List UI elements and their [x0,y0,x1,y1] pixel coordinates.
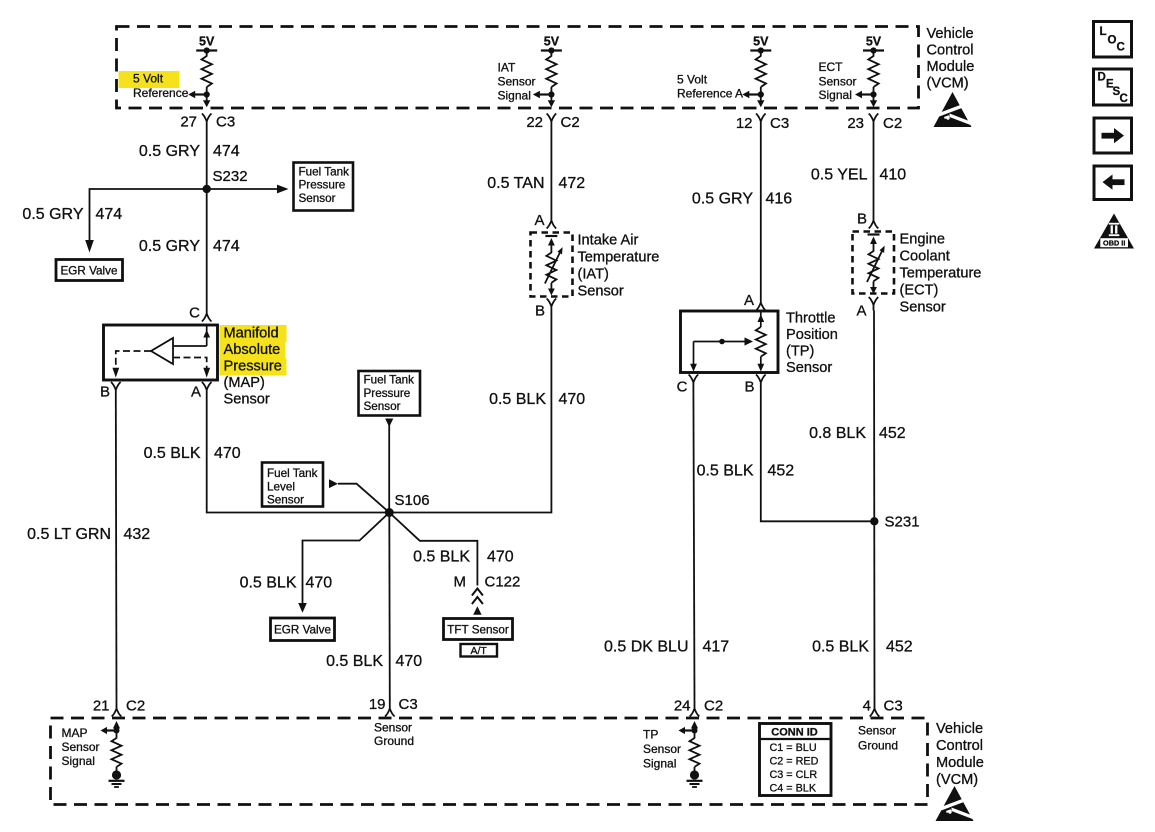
svg-text:C3: C3 [884,698,903,715]
connector pin B of ECT sensor [857,211,878,229]
wire: 0.5 YEL 410 from pin 23 C2 to ECT sensor pin B [873,127,875,215]
label: 0.5 GRY 474 (upper) [139,143,240,160]
connector pin 27 C3 of VCM [180,114,235,131]
svg-text:L: L [1100,26,1107,38]
svg-text:0.5 BLK: 0.5 BLK [144,445,201,462]
label: 0.8 BLK 452 [809,425,906,442]
wire: 0.5 GRY 474 from pin 27 C3 down to S232 and MAP pin C [206,127,208,308]
label: 5 Volt Reference (highlighted) [119,71,180,88]
wire: 0.5 LT GRN 432 from MAP pin B to pin 21 C2 [115,396,118,704]
svg-text:S106: S106 [395,492,430,509]
svg-text:5V: 5V [199,35,215,49]
svg-text:Signal: Signal [819,88,852,102]
svg-text:0.5 BLK: 0.5 BLK [812,639,869,656]
label: Vehicle Control Module (VCM) top right [927,26,975,92]
svg-text:Ground: Ground [374,734,414,748]
component: Manifold Absolute Pressure (MAP) Sensor box with amplifier symbol [104,325,218,380]
connector pin 12 C3 of VCM [736,114,789,132]
svg-text:Signal: Signal [643,757,676,771]
svg-text:C2 = RED: C2 = RED [770,756,819,768]
label: Sensor Ground (pin 19) [374,721,414,749]
svg-text:0.5 YEL: 0.5 YEL [811,167,868,184]
connector pin 21 C2 of VCM (bottom) [93,698,145,717]
svg-text:0.5 GRY: 0.5 GRY [692,191,753,208]
svg-text:OBD II: OBD II [1103,239,1125,248]
connector pin B of TP sensor [744,375,765,396]
svg-text:Sensor: Sensor [364,400,401,413]
icon: OBD II triangle [1094,214,1134,249]
arrow into TFT Sensor [473,606,481,615]
ESD sensitivity symbol (bottom) [936,786,974,821]
svg-text:474: 474 [213,238,240,255]
label: 0.5 BLK 470 (MAP ground) [144,445,241,462]
svg-text:D: D [1098,72,1106,84]
connector pin 4 C3 of VCM (bottom) [863,698,903,717]
svg-text:22: 22 [526,114,543,131]
svg-text:0.5 BLK: 0.5 BLK [240,575,297,592]
svg-text:C3 = CLR: C3 = CLR [770,769,818,781]
svg-text:452: 452 [886,639,913,656]
svg-text:4: 4 [863,698,871,715]
svg-text:Sensor: Sensor [498,75,536,89]
svg-text:TFT Sensor: TFT Sensor [447,624,509,637]
svg-text:Sensor: Sensor [299,192,336,205]
svg-text:Sensor: Sensor [267,494,304,507]
label: IAT Sensor Signal [498,61,536,103]
component: EGR Valve (lower box) [271,618,335,641]
svg-text:470: 470 [559,391,586,408]
svg-text:(TP): (TP) [786,344,814,360]
connector pin C of TP sensor [677,375,699,396]
svg-text:23: 23 [847,115,864,132]
label: Sensor Ground (pin 4) [858,724,898,753]
svg-text:S231: S231 [885,514,920,531]
svg-text:5V: 5V [544,35,560,49]
svg-text:C2: C2 [126,698,145,715]
svg-text:Control: Control [927,43,974,59]
component: Fuel Tank Pressure Sensor (middle box) [359,371,421,416]
wire: branch from S232 left/down to EGR Valve [85,189,207,253]
svg-text:472: 472 [559,175,586,192]
svg-text:Pressure: Pressure [364,387,411,400]
resistor + ground inside VCM at pin 21 (MAP Sensor Signal) [101,721,125,787]
wire: from Fuel Tank Level Sensor (arrow) diagonal to S106 [329,479,389,512]
svg-text:A: A [534,212,544,229]
svg-text:TP: TP [643,728,658,742]
svg-text:0.5 BLK: 0.5 BLK [697,463,754,480]
resistor: 5V pull-up with splice dot and output arrows (REFA rail) [742,47,771,107]
svg-text:B: B [100,384,110,401]
svg-text:(VCM): (VCM) [927,76,969,92]
icon: DESC box [1094,69,1132,105]
wire: 0.5 GRY 416 from pin 12 C3 to TP sensor pin A [760,127,762,297]
svg-text:452: 452 [768,463,795,480]
resistor: 5V pull-up with splice dot and output arrows (ECT rail) [855,47,884,107]
svg-text:Ground: Ground [858,739,898,753]
label: 0.5 BLK 470 (IAT ground) [489,391,585,408]
svg-text:S232: S232 [213,168,248,185]
wire: 0.5 TAN 472 from pin 22 C2 to IAT sensor pin A [550,127,552,215]
svg-text:0.5 BLK: 0.5 BLK [489,391,546,408]
component: Fuel Tank Level Sensor box [262,463,323,507]
component: TFT Sensor box [444,619,513,640]
svg-text:474: 474 [213,143,240,160]
resistor: 5V pull-up with splice dot and output arrows (IAT rail) [533,47,562,107]
svg-text:Signal: Signal [62,754,95,768]
wire: 0.5 BLK 452 from TP pin B right to splice S231 [761,388,875,521]
connector pin A of IAT sensor [534,212,556,229]
svg-text:O: O [1108,35,1117,47]
svg-text:19: 19 [369,696,386,713]
svg-text:0.5 GRY: 0.5 GRY [139,143,200,160]
svg-text:Vehicle: Vehicle [936,721,983,737]
svg-text:C: C [677,379,688,396]
wire: 0.5 BLK 470 from IAT pin B down to splice S106 [389,312,551,513]
svg-text:Fuel Tank: Fuel Tank [267,467,318,480]
connector pin 22 C2 of VCM [526,114,579,132]
label: 0.5 BLK 470 (TFT branch) [413,549,514,566]
label: 0.5 BLK 452 (below S231) [812,639,913,656]
wire: 0.8 BLK 452 from ECT pin A down through S231 to pin 4 C3 [873,311,876,704]
component: EGR Valve (upper left box) [56,260,123,281]
svg-text:0.5 DK BLU: 0.5 DK BLU [604,639,688,656]
svg-text:C3: C3 [399,696,418,713]
svg-text:Coolant: Coolant [900,249,950,265]
svg-text:CONN ID: CONN ID [771,727,818,739]
svg-text:5V: 5V [866,35,882,49]
svg-text:C2: C2 [704,698,723,715]
svg-text:Intake Air: Intake Air [578,233,639,249]
svg-text:0.5 TAN: 0.5 TAN [487,175,544,192]
svg-text:C3: C3 [770,115,789,132]
wire: 0.5 BLK 470 from MAP pin A to splice S106 [207,396,390,513]
svg-text:Sensor: Sensor [643,742,681,756]
svg-text:Control: Control [936,738,983,754]
svg-text:Throttle: Throttle [786,311,835,327]
svg-text:C: C [1120,93,1128,105]
svg-text:A: A [744,292,754,309]
svg-text:ECT: ECT [819,60,844,74]
splice S106 [385,492,430,517]
label: Manifold Absolute Pressure (MAP) Sensor [224,326,282,408]
label: 5 Volt Reference A [677,73,743,101]
svg-text:452: 452 [879,425,906,442]
label: 0.5 DK BLU 417 [604,639,729,656]
label: Intake Air Temperature (IAT) Sensor [578,233,660,300]
svg-text:C3: C3 [216,114,235,131]
icon: right-arrow box [1094,118,1132,153]
icon: LOC box [1094,22,1132,58]
svg-text:(IAT): (IAT) [578,267,609,283]
svg-text:Pressure: Pressure [299,179,346,192]
svg-text:410: 410 [880,167,907,184]
svg-text:Reference A: Reference A [677,87,743,101]
svg-text:(ECT): (ECT) [900,283,939,299]
label: MAP Sensor Signal [62,726,100,768]
svg-text:M: M [454,574,467,591]
wire: branch from S106 to EGR Valve (lower) [298,513,389,613]
label: 0.5 BLK 470 (main ground) [326,653,422,670]
svg-text:C1 = BLU: C1 = BLU [770,742,817,754]
module U1: Vehicle Control Module (VCM), top dashed box [117,27,919,109]
svg-text:Pressure: Pressure [224,359,282,375]
ESD sensitivity symbol (top) [934,92,972,127]
svg-text:A: A [191,384,201,401]
svg-text:C2: C2 [561,114,580,131]
svg-text:0.5 GRY: 0.5 GRY [139,238,200,255]
svg-text:Temperature: Temperature [900,266,982,282]
svg-text:27: 27 [180,114,197,131]
svg-text:474: 474 [96,206,123,223]
svg-text:5V: 5V [753,35,769,49]
svg-text:Manifold: Manifold [224,326,279,342]
component: A/T box [461,644,498,657]
label: 0.5 YEL 410 [811,167,906,184]
connector pin M of C122 [454,574,521,605]
svg-text:A/T: A/T [471,645,488,657]
svg-text:470: 470 [396,653,423,670]
svg-text:Vehicle: Vehicle [927,26,974,42]
svg-text:Signal: Signal [498,89,531,103]
connector pin A of MAP sensor [191,382,212,401]
svg-text:Temperature: Temperature [578,250,660,266]
svg-text:Level: Level [267,480,295,493]
splice S232 [203,168,248,193]
svg-text:Fuel Tank: Fuel Tank [299,165,350,178]
module U1: Vehicle Control Module (VCM), bottom dashed box [51,718,928,805]
svg-text:0.5 BLK: 0.5 BLK [326,653,383,670]
label: Vehicle Control Module (VCM) bottom right [936,721,984,788]
svg-text:C2: C2 [883,115,902,132]
icon: left-arrow box [1094,166,1132,200]
svg-text:EGR Valve: EGR Valve [61,265,118,278]
svg-text:5 Volt: 5 Volt [677,73,708,87]
label: Throttle Position (TP) Sensor [786,311,838,377]
component: Fuel Tank Pressure Sensor (top box) [294,163,354,211]
svg-text:Position: Position [786,327,838,343]
svg-text:Engine: Engine [900,232,945,248]
svg-text:A: A [856,303,866,320]
svg-text:470: 470 [487,549,514,566]
svg-text:Sensor: Sensor [819,75,857,89]
svg-text:417: 417 [703,639,730,656]
svg-text:Module: Module [936,755,984,771]
table: CONN ID legend [760,724,832,796]
svg-text:C4 = BLK: C4 = BLK [770,783,817,795]
component: Intake Air Temperature (IAT) Sensor, dashed box with thermistor [531,233,573,297]
component: Engine Coolant Temperature (ECT) Sensor, dashed box with thermistor [853,232,895,295]
wire: from Fuel Tank Pressure Sensor down to S106 (arrow) [385,419,393,513]
svg-text:MAP: MAP [62,726,88,740]
highlight over Manifold / Absolute / Pressure [220,325,287,376]
label: Engine Coolant Temperature (ECT) Sensor [900,232,982,316]
label: ECT Sensor Signal [819,60,857,102]
svg-text:470: 470 [214,445,241,462]
label: 0.5 LT GRN 432 [27,526,150,543]
svg-text:B: B [535,303,545,320]
svg-text:24: 24 [674,698,691,715]
svg-text:C122: C122 [485,574,521,591]
svg-text:432: 432 [124,526,151,543]
svg-text:5 Volt: 5 Volt [133,72,164,86]
resistor + ground inside VCM at pin 24 (TP Sensor Signal) [679,721,703,787]
label: 0.5 GRY 474 (left branch) [22,206,122,223]
connector pin A of TP sensor [744,292,766,311]
svg-text:416: 416 [766,191,793,208]
svg-text:0.5 BLK: 0.5 BLK [413,549,470,566]
connector pin 19 C3 of VCM (bottom) [369,696,418,717]
svg-text:0.5 GRY: 0.5 GRY [22,206,83,223]
svg-text:0.5 LT GRN: 0.5 LT GRN [27,526,111,543]
wire: branch from S106 to TFT sensor via C122 [389,513,477,586]
connector pin B of IAT sensor [535,299,556,320]
svg-text:B: B [857,211,867,228]
svg-text:Sensor: Sensor [786,360,832,376]
svg-text:Sensor: Sensor [62,740,100,754]
label: 0.5 GRY 474 (lower, above MAP pin C) [139,238,240,255]
svg-text:Reference: Reference [133,86,189,100]
connector pin B of MAP sensor [100,382,121,401]
svg-text:470: 470 [306,575,333,592]
resistor: 5V pull-up with splice dot and output arrows (MAP rail) [188,47,217,107]
svg-text:Module: Module [927,59,975,75]
splice S231 [870,514,919,531]
label: 0.5 BLK 470 (EGR branch) [240,575,333,592]
svg-text:21: 21 [93,698,110,715]
svg-text:0.8 BLK: 0.8 BLK [809,425,866,442]
svg-text:B: B [744,379,754,396]
svg-text:C: C [1117,42,1125,54]
svg-text:Sensor: Sensor [578,284,624,300]
wire: 0.5 DK BLU 417 from TP pin C to pin 24 C2 [693,388,694,703]
label: TP Sensor Signal [643,728,681,771]
connector pin A of ECT sensor [856,297,878,320]
svg-text:Sensor: Sensor [224,392,270,408]
connector pin 23 C2 of VCM [847,114,902,132]
svg-text:IAT: IAT [498,61,516,75]
component: Throttle Position (TP) Sensor box with potentiometer [681,311,779,373]
connector pin C of MAP sensor [189,305,211,322]
svg-text:Sensor: Sensor [900,300,946,316]
svg-text:(VCM): (VCM) [936,772,978,788]
connector pin 24 C2 of VCM (bottom) [674,698,723,717]
svg-text:EGR Valve: EGR Valve [274,624,331,637]
wire: branch from S232 right to Fuel Tank Pressure Sensor [207,185,289,194]
label: 0.5 GRY 416 [692,191,792,208]
svg-text:Sensor: Sensor [374,721,412,735]
label: 0.5 BLK 452 (TP ground) [697,463,795,480]
svg-text:Sensor: Sensor [858,724,896,738]
svg-text:(MAP): (MAP) [224,375,265,391]
svg-text:C: C [189,305,200,322]
svg-text:Fuel Tank: Fuel Tank [364,374,415,387]
label: 0.5 TAN 472 [487,175,585,192]
wire: 0.5 BLK 470 main ground from S106 to pin 19 C3 [388,513,391,704]
svg-text:Absolute: Absolute [224,342,281,358]
svg-text:12: 12 [736,115,753,132]
